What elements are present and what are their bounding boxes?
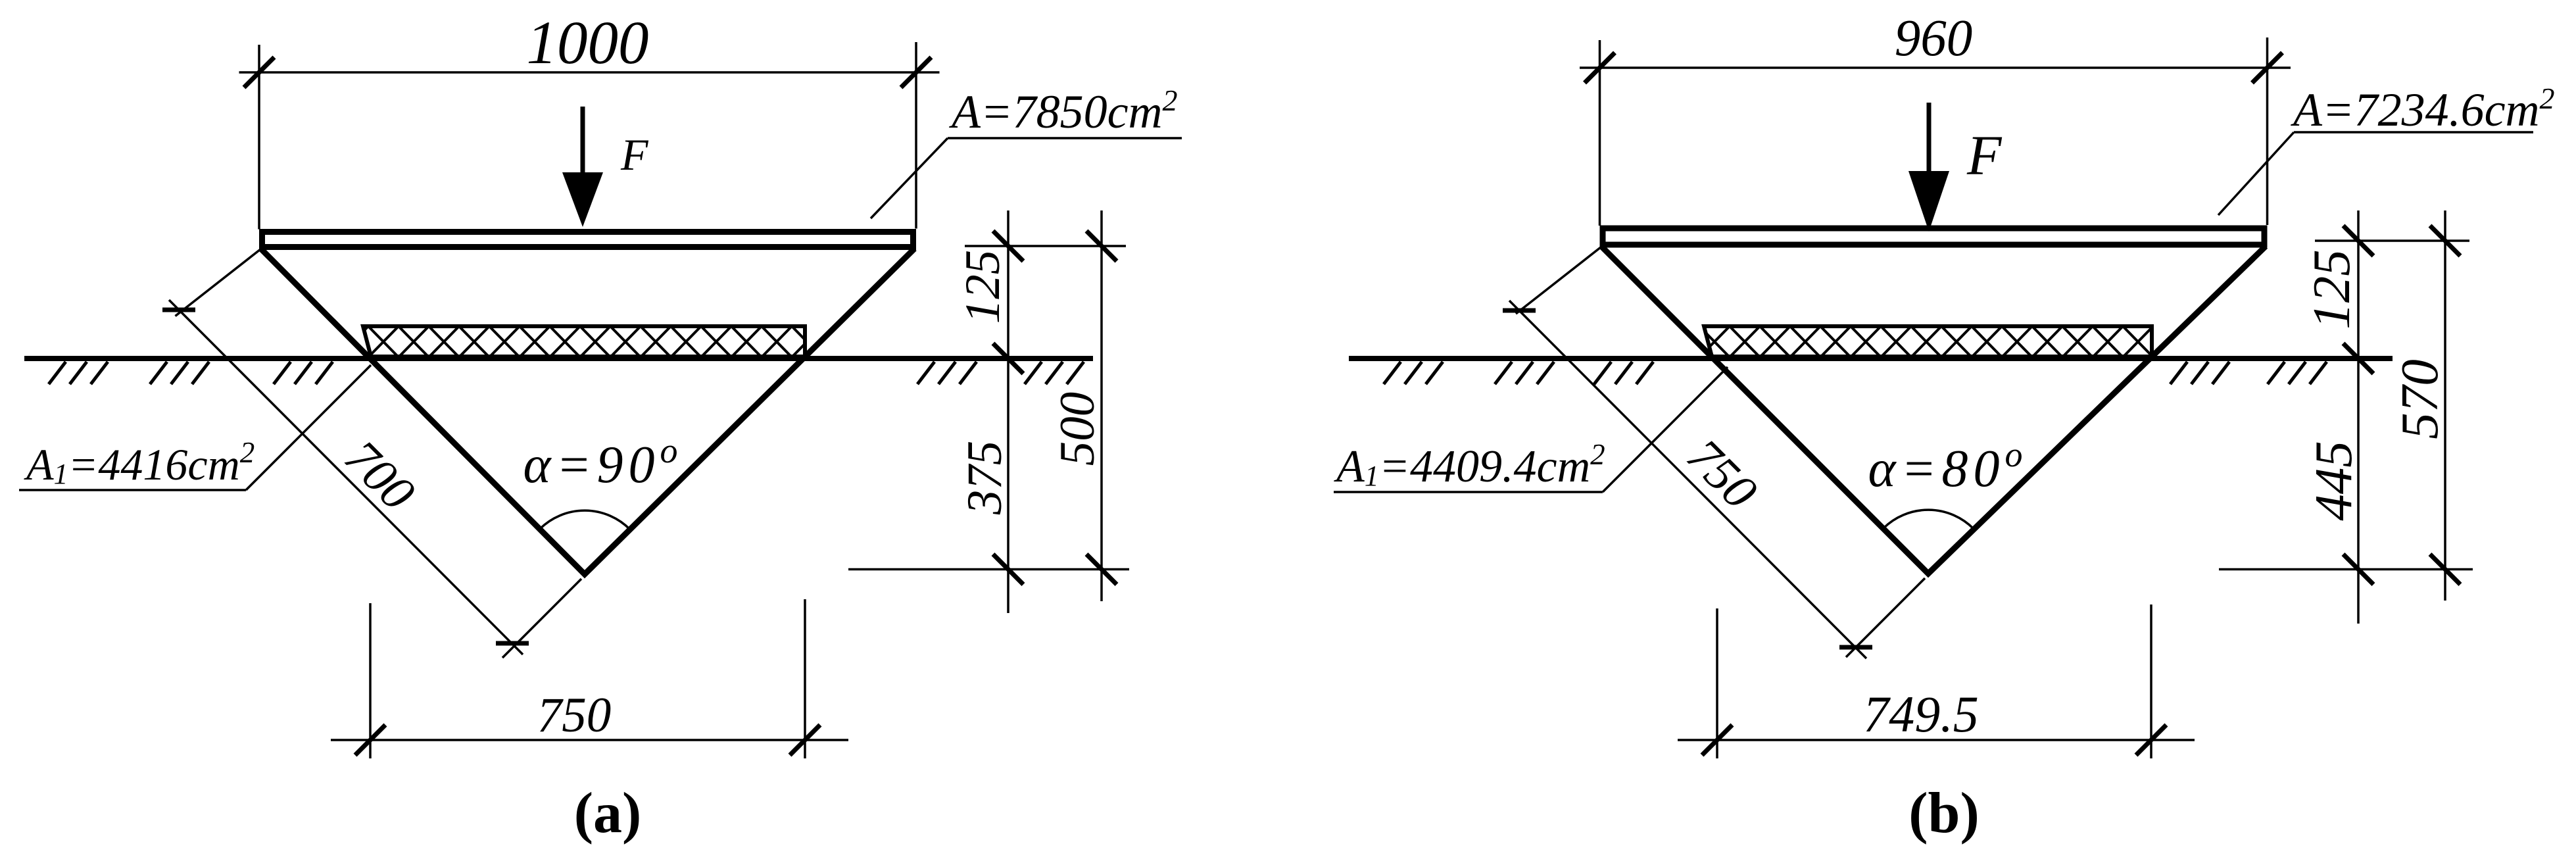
bottom dimension extension lines (a) [369,603,372,758]
svg-text:125: 125 [2302,249,2361,330]
svg-text:F: F [620,130,649,180]
svg-text:500: 500 [1050,392,1105,466]
ground line (a) [24,356,1093,361]
svg-text:1000: 1000 [527,9,649,77]
leader line for area label A1 (a) [19,489,246,491]
force arrow F (a) [581,107,585,180]
right dimension extension line at apex level (b) [2219,568,2473,571]
inclined dimension extension line top (b) [1516,245,1604,314]
top dimension line 1000 (a) [239,71,940,74]
bottom dimension line 749.5 (b) [1678,739,2195,741]
top dimension line 960 (b) [1580,66,2291,69]
svg-text:570: 570 [2390,359,2449,439]
inclined dimension extension line top (a) [176,247,264,316]
right dimension extension line at plate bottom (b) [2315,239,2469,242]
right dimension stack vertical lines (b) [2357,210,2360,624]
right dimension ticks (b) [2343,226,2373,256]
wedge foundation body (a) [261,249,915,574]
svg-text:749.5: 749.5 [1863,685,1979,743]
top plate (b) [1603,228,2264,245]
right dimension stack vertical lines (a) [1007,210,1009,613]
inclined dimension extension line at apex (b) [1846,578,1925,657]
svg-text:A=7850cm2: A=7850cm2 [949,84,1178,138]
bottom dimension extension lines (b) [1716,608,1718,758]
inclined dimension line 700 (a) [169,300,523,654]
svg-text:F: F [1966,124,2003,187]
top dimension extension lines (a) [258,45,260,230]
svg-text:750: 750 [537,688,612,743]
right dimension ticks (a) [993,231,1023,261]
ground hatch marks (b) [1384,362,2327,384]
ground hatch marks (a) [49,362,1084,384]
angle arc (b) [1883,510,1974,529]
angle arc (a) [540,510,630,530]
svg-text:445: 445 [2304,441,2363,521]
bottom dimension line 750 (a) [331,739,848,741]
ground line (b) [1349,356,2393,361]
leader line for area label A (b) [2218,132,2294,215]
svg-text:125: 125 [956,250,1010,324]
cross-hatched bearing strip (b) [1704,326,2152,357]
cross-hatched bearing strip (a) [363,326,805,357]
svg-text:(a): (a) [574,781,642,845]
svg-text:(b): (b) [1908,781,1980,845]
inclined dimension line 750 (b) [1509,301,1866,658]
top dimension extension lines (b) [1599,40,1601,226]
right dimension extension line at apex level (a) [848,568,1129,571]
svg-text:α=90o: α=90o [523,431,683,494]
svg-text:960: 960 [1895,10,1973,67]
force arrow F (b) [1927,103,1932,179]
inclined dimension extension line at apex (a) [502,579,581,658]
leader line for area label A1 (b) [1334,491,1603,493]
right dimension extension line at plate bottom (a) [965,245,1126,247]
svg-text:A=7234.6cm2: A=7234.6cm2 [2291,82,2555,136]
svg-text:α=80o: α=80o [1868,435,2028,498]
leader line for area label A (a) [871,138,948,218]
top plate (a) [262,232,913,247]
wedge foundation body (b) [1601,247,2266,574]
svg-text:375: 375 [958,441,1012,516]
